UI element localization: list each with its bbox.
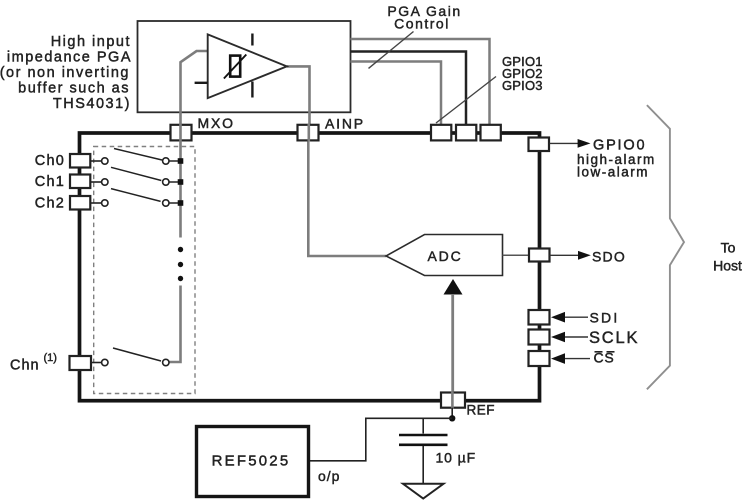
pin GPIO0 xyxy=(529,138,550,152)
pin CS xyxy=(529,351,550,366)
svg-text:High input: High input xyxy=(51,34,131,50)
ellipsis dots xyxy=(178,247,183,281)
wire mux bus (MXO to switches) xyxy=(169,140,180,362)
op-amp U1 xyxy=(195,34,287,99)
wire through AINP pin xyxy=(307,124,310,142)
svg-text:REF5025: REF5025 xyxy=(212,452,291,469)
pin MXO xyxy=(171,125,192,141)
labels GPIO1 GPIO2 GPIO3 xyxy=(502,54,543,93)
arrow CS in xyxy=(551,353,590,364)
wire PGA gain control C (inner) xyxy=(350,62,441,126)
reference arrow into ADC xyxy=(444,279,463,295)
REF5025 box xyxy=(197,427,309,497)
wire through REF pin xyxy=(451,392,454,409)
svg-text:REF: REF xyxy=(467,403,496,418)
svg-text:(1): (1) xyxy=(44,352,57,364)
pin SCLK xyxy=(529,330,550,345)
arrow SDO out xyxy=(550,251,591,260)
wire REF5025 output net xyxy=(310,418,452,461)
wire AINP down to ADC input xyxy=(308,140,386,256)
label CS with overline xyxy=(594,350,615,366)
pin GPIO2 xyxy=(456,125,476,141)
svg-text:impedance PGA: impedance PGA xyxy=(7,50,132,66)
label PGA Gain Control xyxy=(387,3,461,32)
label To Host xyxy=(713,240,742,274)
pin GPIO1 xyxy=(431,125,451,141)
svg-text:SCLK: SCLK xyxy=(589,329,639,347)
ADC block xyxy=(386,235,503,276)
label GPIO0 high-alarm low-alarm xyxy=(577,138,656,180)
PGA description text xyxy=(0,34,132,112)
pin SDI xyxy=(529,310,550,325)
wire PGA gain control A (outer) xyxy=(350,39,489,125)
wire MXO to op-amp + input xyxy=(181,51,208,126)
wire PGA gain control B (middle) xyxy=(350,52,466,126)
pin Chn xyxy=(70,356,92,370)
capacitor C1 10uF xyxy=(399,418,448,483)
svg-text:(or non inverting: (or non inverting xyxy=(0,65,130,81)
arrow GPIO0 out xyxy=(550,139,591,148)
pin Ch0 xyxy=(70,154,90,168)
svg-text:MXO: MXO xyxy=(198,115,235,131)
variable gain symbol inside op-amp xyxy=(224,55,246,79)
PGA box xyxy=(138,21,351,112)
wire through MXO pin xyxy=(179,124,182,142)
svg-text:10 µF: 10 µF xyxy=(436,450,477,466)
switch Ch2 xyxy=(91,189,179,207)
node REF junction xyxy=(449,415,455,421)
svg-text:SDO: SDO xyxy=(592,249,626,265)
wire ADC output to SDO pin xyxy=(503,254,530,256)
ground xyxy=(403,484,444,499)
svg-text:To: To xyxy=(721,240,736,256)
svg-text:Ch2: Ch2 xyxy=(35,196,65,212)
svg-text:AINP: AINP xyxy=(325,116,365,132)
svg-text:ADC: ADC xyxy=(428,248,463,264)
switch Ch0 xyxy=(91,149,179,165)
pin Ch1 xyxy=(70,175,90,189)
svg-text:THS4031): THS4031) xyxy=(53,96,131,112)
switch Ch1 xyxy=(91,167,179,185)
svg-text:Host: Host xyxy=(713,258,742,274)
svg-text:Ch1: Ch1 xyxy=(35,174,65,190)
svg-text:buffer such as: buffer such as xyxy=(18,81,130,97)
main device box xyxy=(80,133,540,401)
svg-text:Chn: Chn xyxy=(10,358,40,374)
svg-text:Ch0: Ch0 xyxy=(35,153,65,169)
pin AINP xyxy=(298,125,319,141)
arrow SCLK in xyxy=(551,332,588,343)
pin GPIO3 xyxy=(481,125,501,141)
svg-text:Control: Control xyxy=(394,16,450,32)
svg-text:o/p: o/p xyxy=(318,468,340,484)
wire op-amp output to AINP xyxy=(287,66,310,126)
pin Ch2 xyxy=(70,196,90,210)
svg-text:low-alarm: low-alarm xyxy=(577,165,649,180)
switch Chn xyxy=(91,348,169,366)
junction dots on bus xyxy=(178,158,184,206)
wire reference to REF pin xyxy=(451,294,454,393)
pin SDO xyxy=(529,249,550,262)
brace to host xyxy=(647,105,684,389)
svg-text:GPIO3: GPIO3 xyxy=(502,78,543,93)
pointer line to GPIO pins xyxy=(436,77,496,124)
label Chn(1) xyxy=(10,352,57,374)
pin REF xyxy=(441,393,465,408)
wire REF pin to junction xyxy=(451,408,453,419)
pointer line to PGA gain wires xyxy=(369,32,414,69)
svg-text:SDI: SDI xyxy=(590,310,620,326)
arrow SDI in xyxy=(551,312,588,323)
dashed mux box xyxy=(94,147,195,394)
